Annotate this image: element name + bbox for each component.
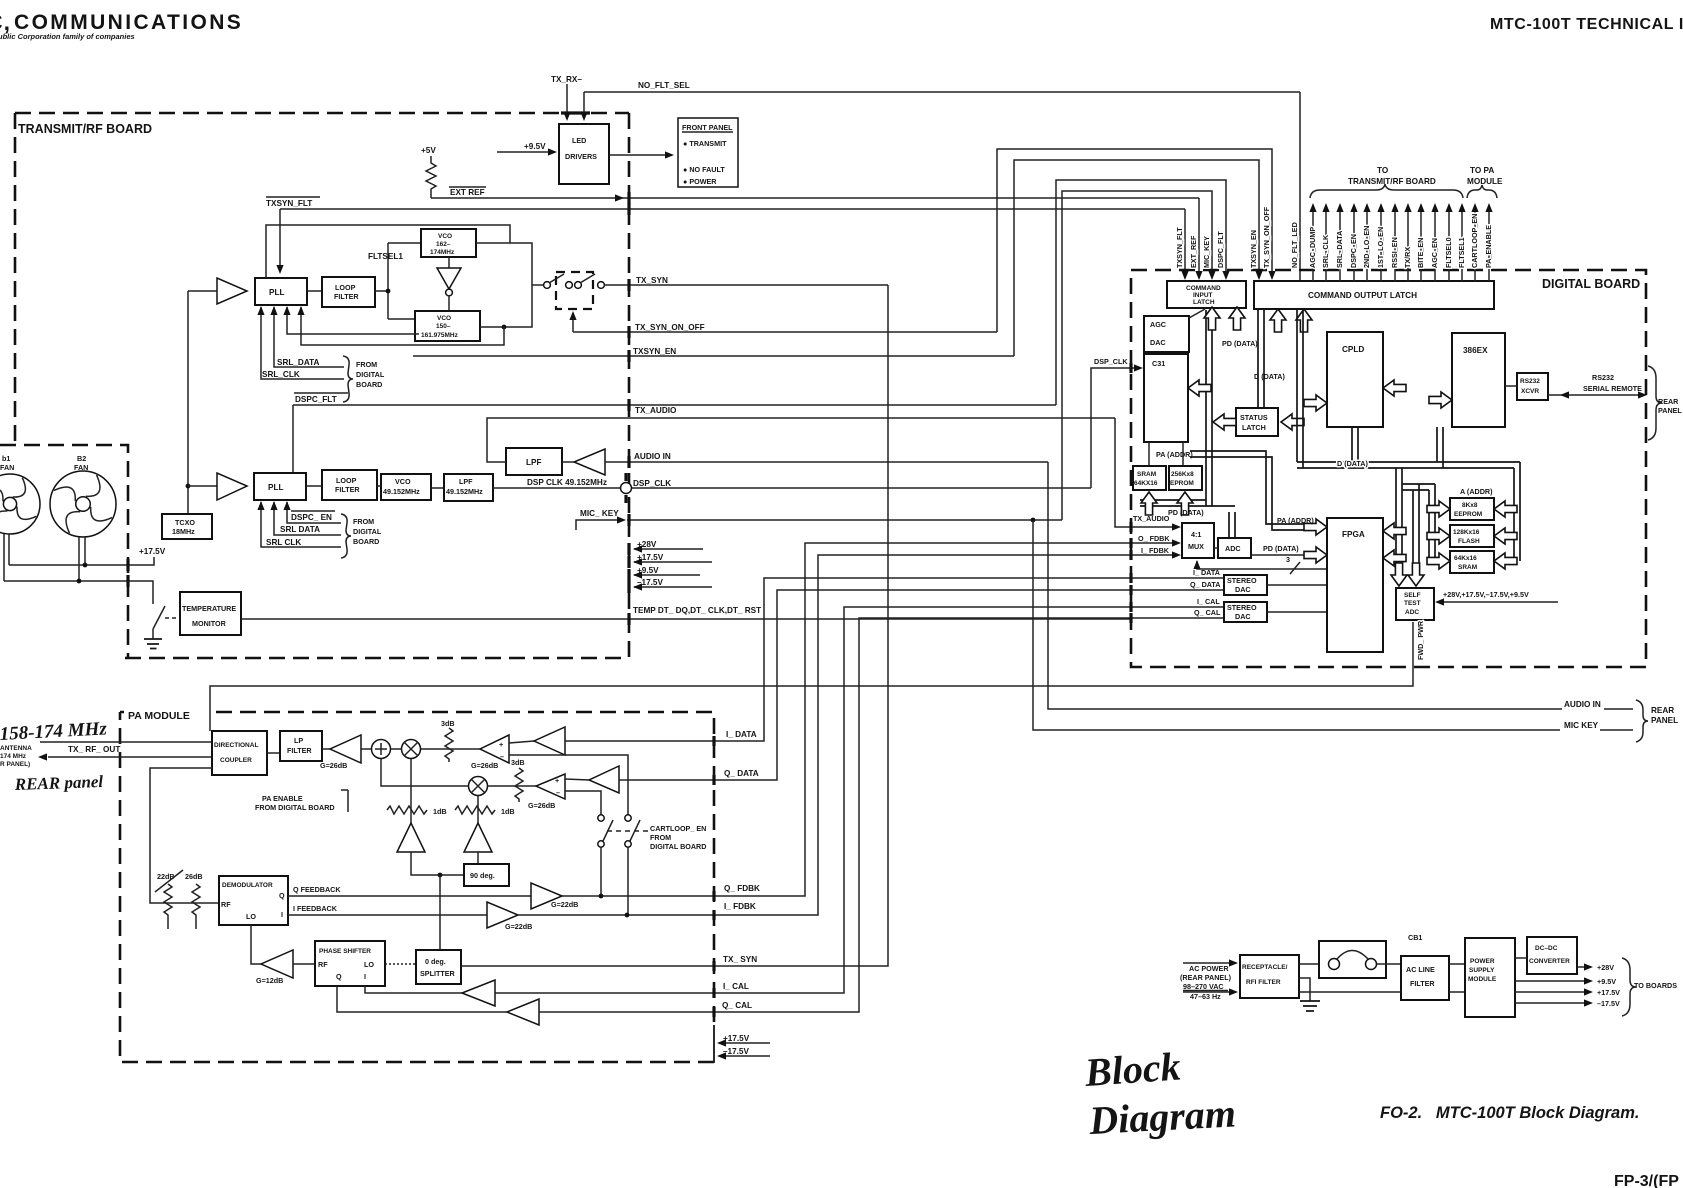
svg-text:TX_ RF_ OUT: TX_ RF_ OUT xyxy=(68,745,120,754)
svg-text:DIGITAL BOARD: DIGITAL BOARD xyxy=(650,842,706,851)
svg-text:FROM DIGITAL BOARD: FROM DIGITAL BOARD xyxy=(255,803,335,812)
svg-text:PA ENABLE: PA ENABLE xyxy=(262,794,303,803)
svg-text:PHASE SHIFTER: PHASE SHIFTER xyxy=(319,948,371,955)
wire TX/RX column xyxy=(1407,206,1409,281)
svg-text:FROM: FROM xyxy=(650,833,671,842)
AGC DAC xyxy=(1144,316,1189,352)
svg-text:I_ FDBK: I_ FDBK xyxy=(1141,546,1170,555)
RS232 XCVR xyxy=(1517,373,1548,400)
svg-text:DSPC_FLT: DSPC_FLT xyxy=(1216,231,1225,268)
svg-text:FLTSEL0: FLTSEL0 xyxy=(1444,237,1453,268)
svg-text:CARTLOOP_EN: CARTLOOP_EN xyxy=(1470,214,1479,268)
svg-text:EEPROM: EEPROM xyxy=(1454,511,1482,518)
svg-text:386EX: 386EX xyxy=(1463,346,1488,355)
svg-text:98–270 VAC: 98–270 VAC xyxy=(1183,982,1224,991)
status latch xyxy=(1236,408,1278,436)
svg-text:MIC_ KEY: MIC_ KEY xyxy=(580,509,619,518)
svg-text:Q FEEDBACK: Q FEEDBACK xyxy=(293,885,341,894)
switch S2 thermal xyxy=(153,606,165,629)
svg-text:RS232: RS232 xyxy=(1592,373,1614,382)
EPROM 256Kx8 xyxy=(1169,466,1202,490)
wires filter to PSM xyxy=(1449,964,1465,992)
brace TO BOARDS xyxy=(1622,958,1636,1016)
svg-text:REAR panel: REAR panel xyxy=(13,772,103,794)
svg-text:G=22dB: G=22dB xyxy=(551,900,578,909)
wire Q_DATA PA-digital xyxy=(714,590,1224,780)
svg-text:MODULE: MODULE xyxy=(1467,177,1503,186)
FLASH 128Kx16 xyxy=(1450,525,1494,547)
svg-text:–: – xyxy=(556,788,560,797)
svg-text:1dB: 1dB xyxy=(501,807,515,816)
svg-text:FLTSEL1: FLTSEL1 xyxy=(368,252,403,261)
svg-text:RS232: RS232 xyxy=(1520,378,1540,385)
wire TX_RX into LED drivers xyxy=(566,84,568,119)
90 deg box xyxy=(464,864,509,886)
svg-text:3: 3 xyxy=(1286,555,1290,564)
svg-text:G=12dB: G=12dB xyxy=(256,976,283,985)
svg-text:XCVR: XCVR xyxy=(1521,388,1539,395)
svg-text:DAC: DAC xyxy=(1235,585,1251,594)
svg-text:b1: b1 xyxy=(2,454,10,463)
svg-text:1dB: 1dB xyxy=(433,807,447,816)
EEPROM 8Kx8 xyxy=(1450,498,1494,520)
svg-text:26dB: 26dB xyxy=(185,872,203,881)
svg-text:LPF: LPF xyxy=(459,477,473,486)
wire DSPC_FLT column xyxy=(1222,271,1229,280)
wire 2ND_LO_EN column xyxy=(1366,206,1368,281)
wire LED drivers to front panel xyxy=(609,154,672,156)
svg-text:AC POWER: AC POWER xyxy=(1189,964,1229,973)
svg-text:8Kx8: 8Kx8 xyxy=(1462,502,1478,509)
SRAM 64KX16 xyxy=(1133,466,1166,490)
hollow arrows FPGA right xyxy=(1383,523,1406,539)
svg-text:NO_FLT_SEL: NO_FLT_SEL xyxy=(638,81,690,90)
svg-text:Q_ DATA: Q_ DATA xyxy=(1190,580,1220,589)
wire diff- to cartloop xyxy=(509,755,628,815)
svg-text:D (DATA): D (DATA) xyxy=(1337,459,1368,468)
wire VCO outputs join xyxy=(476,243,532,327)
svg-text:SERIAL REMOTE: SERIAL REMOTE xyxy=(1583,384,1642,393)
svg-text:SRL_CLK: SRL_CLK xyxy=(262,370,300,379)
hollow arrows CPLD-386EX xyxy=(1383,380,1406,396)
power supply module xyxy=(1465,938,1515,1017)
amplifier A9 up xyxy=(397,823,425,852)
svg-text:TX_ SYN: TX_ SYN xyxy=(723,955,757,964)
svg-text:+17.5V: +17.5V xyxy=(1597,988,1620,997)
svg-text:DAC: DAC xyxy=(1235,612,1251,621)
attenuator 1dB xyxy=(455,806,495,814)
svg-text:PA (ADDR): PA (ADDR) xyxy=(1156,450,1193,459)
DIGITAL BOARD dashed outline xyxy=(1131,270,1646,667)
svg-text:STEREO: STEREO xyxy=(1227,576,1257,585)
wire FLTSEL0 column xyxy=(1448,206,1450,281)
wire Q_FDBK PA-digital xyxy=(714,543,1178,896)
directional coupler xyxy=(212,731,267,775)
svg-text:● TRANSMIT: ● TRANSMIT xyxy=(683,139,727,148)
svg-text:DSPC_ EN: DSPC_ EN xyxy=(291,513,332,522)
svg-text:SRAM: SRAM xyxy=(1458,564,1477,571)
svg-text:128Kx16: 128Kx16 xyxy=(1453,529,1480,536)
svg-text:SPLITTER: SPLITTER xyxy=(420,969,456,978)
ADC xyxy=(1218,538,1251,558)
svg-text:TXSYN_EN: TXSYN_EN xyxy=(1249,230,1258,268)
svg-text:+9.5V: +9.5V xyxy=(524,142,546,151)
wire EXT_REF column xyxy=(1195,271,1202,280)
svg-text:LED: LED xyxy=(572,136,586,145)
svg-text:+9.5V: +9.5V xyxy=(1597,977,1616,986)
svg-text:+: + xyxy=(555,776,559,785)
wire TXSYN_EN route xyxy=(1014,160,1259,356)
svg-text:DSP_CLK: DSP_CLK xyxy=(1094,357,1128,366)
wire FLTSEL1 column xyxy=(1461,206,1463,281)
wire I_DATA PA-digital xyxy=(714,578,1224,741)
svg-text:ANTENNA: ANTENNA xyxy=(0,745,32,752)
bus PD data vertical xyxy=(1206,310,1212,506)
svg-text:Q: Q xyxy=(336,972,342,981)
svg-text:G=26dB: G=26dB xyxy=(471,761,498,770)
svg-text:+17.5V: +17.5V xyxy=(139,547,166,556)
wire DSPC_FLT route xyxy=(1056,180,1226,405)
wire TX_SYN_ON_OFF route xyxy=(997,149,1272,332)
svg-text:49.152MHz: 49.152MHz xyxy=(383,487,420,496)
switch S3 cartloop A xyxy=(598,815,604,821)
svg-text:CONVERTER: CONVERTER xyxy=(1529,958,1570,965)
svg-text:PANEL: PANEL xyxy=(1651,716,1678,725)
phase shifter xyxy=(315,941,385,986)
svg-text:3dB: 3dB xyxy=(441,719,455,728)
hollow arrows into latches xyxy=(1204,307,1220,330)
svg-text:+17.5V: +17.5V xyxy=(723,1034,750,1043)
svg-text:Q_ FDBK: Q_ FDBK xyxy=(724,884,760,893)
svg-text:TO PA: TO PA xyxy=(1470,166,1494,175)
svg-text:INPUT: INPUT xyxy=(1193,292,1213,299)
switch S4 cartloop B xyxy=(625,815,631,821)
wire I_FDBK PA-digital xyxy=(714,555,1178,915)
svg-text:PLL: PLL xyxy=(268,483,283,492)
diff amplifier A5 xyxy=(480,735,509,763)
AC line filter xyxy=(1401,956,1449,1000)
svg-text:DC–DC: DC–DC xyxy=(1535,945,1558,952)
svg-text:256Kx8: 256Kx8 xyxy=(1171,471,1194,478)
wire TXSYN_FLT drop to PLL xyxy=(279,209,281,270)
SRAM 64Kx16 xyxy=(1450,551,1494,573)
amplifier A11 G=22dB xyxy=(531,883,562,909)
svg-text:AC LINE: AC LINE xyxy=(1406,965,1435,974)
wire mixer M1 down xyxy=(410,759,412,824)
svg-text:SRAM: SRAM xyxy=(1137,471,1156,478)
summer xyxy=(361,748,371,750)
svg-text:PD (DATA): PD (DATA) xyxy=(1222,339,1258,348)
svg-text:LOOP: LOOP xyxy=(335,283,356,292)
bus memory right xyxy=(1514,462,1520,561)
svg-text:RF: RF xyxy=(318,960,328,969)
svg-text:TX_SYN: TX_SYN xyxy=(636,276,668,285)
wire CARTLOOP_EN dashed xyxy=(607,830,648,832)
svg-text:I: I xyxy=(364,972,366,981)
wire DSP_CLK route xyxy=(1091,368,1140,488)
hollow arrow status latch to C31 xyxy=(1188,380,1211,396)
svg-text:MONITOR: MONITOR xyxy=(192,619,227,628)
svg-text:49.152MHz: 49.152MHz xyxy=(446,487,483,496)
svg-text:SRL_CLK: SRL_CLK xyxy=(1321,234,1330,268)
svg-text:FROM: FROM xyxy=(353,517,374,526)
svg-text:RF: RF xyxy=(221,900,231,909)
svg-text:TX_AUDIO: TX_AUDIO xyxy=(1133,514,1170,523)
TCXO 18MHz xyxy=(162,514,212,539)
wire loop filter to VCO pair xyxy=(375,290,388,292)
PLL U3 xyxy=(254,473,306,500)
wire DSPC_EN column xyxy=(1353,206,1355,281)
LPF audio xyxy=(506,448,562,475)
svg-text:RFI FILTER: RFI FILTER xyxy=(1246,979,1281,986)
svg-text:G=26dB: G=26dB xyxy=(528,801,555,810)
wire demod LO xyxy=(251,925,261,964)
svg-text:162–: 162– xyxy=(436,241,451,248)
svg-text:174 MHz: 174 MHz xyxy=(0,753,27,760)
svg-text:COMMUNICATIONS: COMMUNICATIONS xyxy=(14,11,243,34)
svg-text:SELF: SELF xyxy=(1404,592,1421,599)
wire +9.5V out xyxy=(1515,980,1586,982)
svg-text:–17.5V: –17.5V xyxy=(1597,999,1620,1008)
svg-text:DIRECTIONAL: DIRECTIONAL xyxy=(214,742,258,749)
svg-text:TXSYN_FLT: TXSYN_FLT xyxy=(266,199,312,208)
svg-text:DSPC_FLT: DSPC_FLT xyxy=(295,395,337,404)
brace REAR PANEL bottom xyxy=(1636,700,1648,742)
wire NO_FLT_SEL drop to LED drivers xyxy=(583,92,585,119)
svg-text:PANEL: PANEL xyxy=(1658,406,1682,415)
svg-text:1ST_LO_EN: 1ST_LO_EN xyxy=(1376,227,1385,268)
command input latch xyxy=(1167,281,1246,308)
wire TX_AUDIO route xyxy=(1115,418,1178,527)
svg-text:MIC KEY: MIC KEY xyxy=(1564,721,1599,730)
stereo DAC 1 xyxy=(1224,575,1267,595)
svg-text:LPF: LPF xyxy=(526,458,541,467)
wire I_CAL PA-digital xyxy=(714,607,1224,993)
svg-text:SRL_DATA: SRL_DATA xyxy=(1335,231,1344,268)
svg-text:AGC_EN: AGC_EN xyxy=(1430,238,1439,268)
svg-text:TCXO: TCXO xyxy=(175,518,195,527)
wire AC in xyxy=(1183,962,1234,964)
svg-text:PD (DATA): PD (DATA) xyxy=(1263,544,1299,553)
svg-text:SRL DATA: SRL DATA xyxy=(280,525,320,534)
bus PD data to memories xyxy=(1140,500,1212,506)
svg-text:174MHz: 174MHz xyxy=(430,249,455,256)
wire mixer M2 down xyxy=(477,796,479,824)
svg-text:D (DATA): D (DATA) xyxy=(1254,372,1285,381)
svg-text:–: – xyxy=(500,752,504,761)
svg-text:TRANSMIT/RF BOARD: TRANSMIT/RF BOARD xyxy=(1348,177,1436,186)
svg-text:PA_ENABLE: PA_ENABLE xyxy=(1484,225,1493,268)
svg-text:I_ CAL: I_ CAL xyxy=(1197,597,1220,606)
wire SRL_CLK column xyxy=(1325,206,1327,281)
wire EXT_REF drop xyxy=(1198,198,1200,278)
svg-text:MTC-100T TECHNICAL I: MTC-100T TECHNICAL I xyxy=(1490,16,1683,33)
svg-text:LATCH: LATCH xyxy=(1242,423,1266,432)
splitter 0 deg xyxy=(416,950,461,984)
hollow arrows into memory bottoms xyxy=(1141,492,1157,515)
CPLD xyxy=(1327,332,1383,427)
svg-text:DSP CLK 49.152MHz: DSP CLK 49.152MHz xyxy=(527,478,607,487)
svg-text:VCO: VCO xyxy=(395,477,411,486)
wire mixer to diff amp xyxy=(421,748,481,750)
wire TCXO to amplifier A1 xyxy=(188,290,217,292)
svg-text:C31: C31 xyxy=(1152,359,1165,368)
svg-text:CPLD: CPLD xyxy=(1342,345,1364,354)
svg-text:EPROM: EPROM xyxy=(1170,480,1194,487)
svg-text:SRL_DATA: SRL_DATA xyxy=(277,358,320,367)
loop filter U2 xyxy=(322,277,375,307)
svg-text:G=26dB: G=26dB xyxy=(320,761,347,770)
PA border ticks xyxy=(712,736,715,746)
svg-text:TXSYN_EN: TXSYN_EN xyxy=(633,347,676,356)
svg-text:B2: B2 xyxy=(77,454,86,463)
ground xyxy=(144,639,162,649)
amplifier A8 Q_DATA xyxy=(565,779,589,780)
svg-text:RSSI_EN: RSSI_EN xyxy=(1390,237,1399,268)
svg-text:SUPPLY: SUPPLY xyxy=(1469,967,1495,974)
amplifier A6 I_DATA xyxy=(509,741,534,743)
svg-text:AUDIO IN: AUDIO IN xyxy=(634,452,671,461)
wire fan power xyxy=(4,534,85,581)
svg-text:O_ FDBK: O_ FDBK xyxy=(1138,534,1170,543)
mixer M1 xyxy=(402,740,421,759)
amplifier A2 xyxy=(188,485,217,487)
svg-text:LOOP: LOOP xyxy=(336,476,357,485)
C31 DSP xyxy=(1144,354,1188,442)
wire 1ST_LO_EN column xyxy=(1380,206,1382,281)
svg-text:FILTER: FILTER xyxy=(334,292,359,301)
svg-text:BOARD: BOARD xyxy=(353,537,379,546)
svg-text:18MHz: 18MHz xyxy=(172,527,195,536)
svg-text:CARTLOOP_ EN: CARTLOOP_ EN xyxy=(650,824,706,833)
svg-text:47–63 Hz: 47–63 Hz xyxy=(1190,992,1221,1001)
svg-text:LO: LO xyxy=(364,960,374,969)
svg-text:STEREO: STEREO xyxy=(1227,603,1257,612)
svg-text:DIGITAL BOARD: DIGITAL BOARD xyxy=(1542,277,1640,291)
svg-text:MUX: MUX xyxy=(1188,542,1204,551)
wire phase shifter LO to splitter xyxy=(385,963,416,965)
demodulator xyxy=(219,876,288,925)
svg-text:TEST: TEST xyxy=(1404,600,1421,607)
bus memory left / A ADDR xyxy=(1429,484,1435,561)
TRANSMIT/RF BOARD dashed outline xyxy=(15,112,629,115)
wire RSSI_EN column xyxy=(1394,206,1396,281)
svg-text:(REAR PANEL): (REAR PANEL) xyxy=(1180,973,1232,982)
amplifier A10 up xyxy=(464,823,492,852)
LPF 49.152MHz xyxy=(444,474,493,501)
svg-text:A (ADDR): A (ADDR) xyxy=(1460,487,1493,496)
amplifier A12 G=22dB xyxy=(487,902,518,928)
amplifier A3 audio in xyxy=(574,449,605,475)
LP filter xyxy=(267,752,280,754)
wire CARTLOOP_EN column xyxy=(1474,206,1476,281)
hollow arrow bus to CPLD xyxy=(1304,395,1327,411)
svg-text:150–: 150– xyxy=(436,323,451,330)
VCO 150-161.975MHz xyxy=(415,311,480,341)
svg-text:SRL CLK: SRL CLK xyxy=(266,538,301,547)
wire MIC_KEY route xyxy=(1062,191,1212,520)
digital border ticks xyxy=(1129,363,1132,373)
svg-text:DAC: DAC xyxy=(1150,338,1166,347)
wire +28V out xyxy=(1577,966,1586,968)
svg-text:FLTSEL1: FLTSEL1 xyxy=(1457,237,1466,268)
wire return + ground xyxy=(1299,991,1401,993)
wire TXSYN_FLT drop xyxy=(1184,209,1186,278)
svg-text:FILTER: FILTER xyxy=(1410,979,1435,988)
svg-text:DSPC_EN: DSPC_EN xyxy=(1349,234,1358,268)
wire PLL to loop filter xyxy=(307,290,322,292)
DC-DC converter xyxy=(1515,957,1527,959)
wire AGC_EN column xyxy=(1434,206,1436,281)
svg-text:FILTER: FILTER xyxy=(287,746,312,755)
svg-text:PD (DATA): PD (DATA) xyxy=(1168,508,1204,517)
svg-text:CB1: CB1 xyxy=(1408,933,1422,942)
svg-text:+28V: +28V xyxy=(1597,963,1614,972)
svg-text:TX_AUDIO: TX_AUDIO xyxy=(635,406,677,415)
temperature monitor U5 xyxy=(180,592,241,635)
PLL U1 xyxy=(255,278,307,305)
MUX 4:1 xyxy=(1182,523,1214,558)
svg-text:FO-2. MTC-100T Block Diagram: FO-2. MTC-100T Block Diagram. xyxy=(1380,1104,1639,1122)
loop filter U4 xyxy=(322,470,377,500)
brace FROM DIGITAL BOARD xyxy=(341,514,351,558)
svg-text:NO_FLT_LED: NO_FLT_LED xyxy=(1290,222,1299,268)
wire PA_ENABLE column xyxy=(1488,206,1490,281)
svg-text:I: I xyxy=(281,910,283,919)
svg-text:VCO: VCO xyxy=(437,315,451,322)
svg-text:BITE_EN: BITE_EN xyxy=(1416,238,1425,268)
svg-text:FLASH: FLASH xyxy=(1458,538,1480,545)
svg-text:● NO FAULT: ● NO FAULT xyxy=(683,165,725,174)
wire 3-bit bus FPGA to MUX xyxy=(1197,561,1327,569)
svg-text:FPGA: FPGA xyxy=(1342,530,1365,539)
svg-text:RECEPTACLE/: RECEPTACLE/ xyxy=(1242,964,1288,971)
circuit breaker CB1 xyxy=(1299,963,1329,965)
svg-text:PLL: PLL xyxy=(269,288,284,297)
amplifier A13 G=12dB xyxy=(261,950,293,978)
svg-text:TEMPERATURE: TEMPERATURE xyxy=(182,604,236,613)
svg-text:–17.5V: –17.5V xyxy=(723,1047,749,1056)
svg-text:I_ DATA: I_ DATA xyxy=(1193,568,1220,577)
svg-text:FRONT PANEL: FRONT PANEL xyxy=(682,123,733,132)
svg-text:2ND_LO_EN: 2ND_LO_EN xyxy=(1362,226,1371,268)
wire C31 to SRAM/EPROM xyxy=(1149,442,1183,466)
wire Q_CAL PA-digital xyxy=(714,618,1224,1012)
svg-text:MODULE: MODULE xyxy=(1468,976,1497,983)
svg-text:REAR: REAR xyxy=(1658,397,1679,406)
svg-text:ublic Corporation family of co: ublic Corporation family of companies xyxy=(0,32,135,41)
bus ADC vertical xyxy=(1229,512,1235,538)
svg-text:Diagram: Diagram xyxy=(1087,1090,1237,1143)
border ticks xyxy=(627,192,630,204)
svg-text:TO BOARDS: TO BOARDS xyxy=(1634,981,1677,990)
wire -17.5V out xyxy=(1515,1002,1586,1004)
wire A9 to 90deg xyxy=(411,852,464,875)
svg-text:FILTER: FILTER xyxy=(335,485,360,494)
bus PA ADDR to FPGA xyxy=(1190,451,1304,530)
svg-text:DIGITAL: DIGITAL xyxy=(353,527,382,536)
bus D data horizontal xyxy=(1297,462,1520,468)
wire Q_CAL chain xyxy=(337,986,507,1012)
svg-text:FAN: FAN xyxy=(0,463,14,472)
svg-text:I_ DATA: I_ DATA xyxy=(726,730,757,739)
amplifier A1 xyxy=(217,278,247,304)
PA MODULE dashed outline xyxy=(120,712,714,1062)
svg-text:4:1: 4:1 xyxy=(1191,530,1201,539)
switch S1 TX_SYN xyxy=(532,284,543,286)
svg-text:TX_RX–: TX_RX– xyxy=(551,75,582,84)
hollow arrows into self test adc xyxy=(1391,563,1407,586)
